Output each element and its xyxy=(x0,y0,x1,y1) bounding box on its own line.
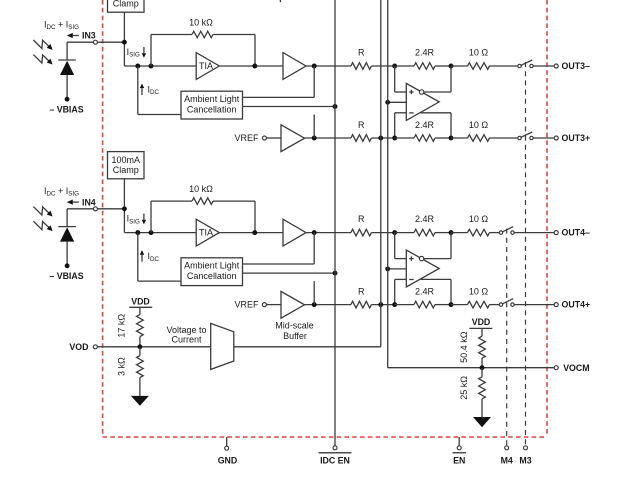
label GND xyxy=(218,455,238,465)
label OUT4- xyxy=(562,228,590,238)
svg-text:TIA: TIA xyxy=(199,228,213,238)
wire buffer out lower (IN4) xyxy=(305,304,352,306)
label 2.4R upper (IN4) xyxy=(415,214,435,224)
junction ALC lower tap (IN4) xyxy=(312,302,317,307)
terminal OUT3- xyxy=(554,64,558,68)
svg-text:10 kΩ: 10 kΩ xyxy=(189,184,213,194)
junction ALC lower tap (IN3) xyxy=(312,136,317,141)
wire TIA out (IN4) xyxy=(219,232,283,234)
junction R/2.4R lower (IN3) xyxy=(392,136,397,141)
ground (VOD divider) xyxy=(131,390,149,406)
label M3 xyxy=(519,455,531,465)
junction R/2.4R lower (IN4) xyxy=(392,302,397,307)
arrow into IN4 xyxy=(67,200,79,205)
resistor R upper (IN3) xyxy=(351,63,395,70)
wire ALC lower tap (IN4) xyxy=(313,281,315,305)
svg-text:Voltage to: Voltage to xyxy=(166,325,206,335)
wire IDC branch down (IN4) xyxy=(137,233,139,282)
wire FDA +in (IN4) xyxy=(395,233,407,259)
label OUT3- xyxy=(562,61,590,71)
clamp box (IN3) xyxy=(108,0,145,12)
switch OUT3- (IN3) xyxy=(518,60,533,68)
svg-text:2.4R: 2.4R xyxy=(415,47,435,57)
resistor R lower (IN4) xyxy=(351,301,395,308)
net VOCM bus xyxy=(388,0,482,368)
label 17 kOhm xyxy=(117,314,127,338)
svg-text:VDD: VDD xyxy=(131,297,150,307)
junction buffer out (IN3) xyxy=(312,64,317,69)
label TIA (IN3) xyxy=(199,61,213,71)
svg-text:VREF: VREF xyxy=(234,300,259,310)
svg-text:100mA: 100mA xyxy=(112,155,141,165)
voltage-to-current converter xyxy=(211,323,234,369)
wire TIA out (IN3) xyxy=(219,65,283,67)
op-amp VREF buffer (IN3) xyxy=(281,125,305,152)
wire FDA vocm (IN4) xyxy=(388,268,407,270)
svg-text:VDD: VDD xyxy=(472,317,491,327)
label 50.4 kOhm xyxy=(459,331,469,363)
wire clamp to input node (IN3) xyxy=(123,12,125,66)
resistor R upper (IN4) xyxy=(351,229,395,236)
resistor 10 Ohm lower (IN4) xyxy=(451,301,499,308)
junction feedback upper (IN3) xyxy=(449,64,454,69)
wire FDA -in (IN4) xyxy=(395,279,407,304)
label I_DC + I_SIG (IN3) xyxy=(44,19,79,31)
svg-text:Buffer: Buffer xyxy=(283,331,307,341)
wire clamp to input node (IN4) xyxy=(123,179,125,233)
label I_DC with arrow (IN4) xyxy=(140,250,160,263)
wire FDA out inverting (IN3) xyxy=(424,66,451,92)
junction feedback upper (IN4) xyxy=(449,230,454,235)
label R upper (IN4) xyxy=(358,214,365,224)
terminal GND xyxy=(225,437,229,450)
svg-text:50.4 kΩ: 50.4 kΩ xyxy=(459,331,469,363)
svg-text:Cancellation: Cancellation xyxy=(187,271,237,281)
label R lower (IN3) xyxy=(358,120,365,130)
net IDC EN bus xyxy=(334,0,336,446)
ground (VOCM divider) xyxy=(473,411,491,427)
junction VOCM divider xyxy=(480,365,485,370)
label 2.4R upper (IN3) xyxy=(415,47,435,57)
label TIA (IN4) xyxy=(199,228,213,238)
label 25 kOhm xyxy=(459,376,469,400)
label – VBIAS (IN3) xyxy=(49,105,83,115)
wire ALC middle to IDC EN bus (IN4) xyxy=(243,272,336,274)
label OUT4+ xyxy=(562,300,591,310)
label Mid-scale Buffer xyxy=(275,320,314,341)
svg-text:GND: GND xyxy=(218,455,238,465)
wire FDA out non-inverting (IN3) xyxy=(421,113,451,138)
wire to OUT3- xyxy=(533,65,554,67)
net VREF bus xyxy=(234,0,381,347)
label I_SIG with arrow (IN4) xyxy=(127,214,147,226)
resistor 10 kOhm feedback (IN3) xyxy=(151,31,255,66)
op-amp buffer (IN3) xyxy=(283,53,306,80)
svg-text:Clamp: Clamp xyxy=(113,165,139,175)
terminal M3 xyxy=(524,446,528,450)
label 3 kOhm xyxy=(117,357,127,376)
junction IDC branch (IN3) xyxy=(135,64,140,69)
svg-text:R: R xyxy=(358,214,365,224)
svg-text:R: R xyxy=(358,47,365,57)
svg-text:OUT3–: OUT3– xyxy=(562,61,590,71)
label 10 kOhm (IN3) xyxy=(189,18,213,28)
label R upper (IN3) xyxy=(358,47,365,57)
svg-text:M3: M3 xyxy=(519,455,531,465)
photodiode D3 light arrow 1 xyxy=(33,40,52,50)
junction feedback lower (IN4) xyxy=(449,302,454,307)
svg-text:OUT4–: OUT4– xyxy=(562,228,590,238)
label FDA &#8722; (IN3) xyxy=(409,112,413,114)
wire buffer out lower (IN3) xyxy=(305,137,352,139)
svg-text:IN4: IN4 xyxy=(82,197,96,207)
svg-text:R: R xyxy=(358,287,365,297)
terminal EN xyxy=(457,437,461,450)
svg-text:VOD: VOD xyxy=(69,342,88,352)
label FDA &#8722; (IN4) xyxy=(409,279,413,281)
label M4 xyxy=(501,455,513,465)
resistor 2.4R lower (IN3) xyxy=(395,135,451,142)
red dashed device boundary (bottom) xyxy=(103,436,547,438)
terminal VREF (IN4) xyxy=(262,303,266,307)
label 2.4R lower (IN4) xyxy=(415,287,435,297)
label EN (overline) xyxy=(453,453,467,466)
wire FDA vocm (IN3) xyxy=(388,101,407,103)
svg-text:10 Ω: 10 Ω xyxy=(469,287,489,297)
red dashed device boundary (left) xyxy=(102,0,104,437)
svg-text:Cancellation: Cancellation xyxy=(187,104,237,114)
wire IN4 into device xyxy=(97,208,124,210)
wire IN4 to photodiode xyxy=(67,209,93,227)
label 10 Ohm lower (IN3) xyxy=(469,120,489,130)
svg-text:OUT3+: OUT3+ xyxy=(562,133,591,143)
label VOD xyxy=(69,342,88,352)
svg-text:VOCM: VOCM xyxy=(563,363,589,373)
resistor 10 Ohm lower (IN3) xyxy=(451,135,518,142)
op-amp TIA (IN4) xyxy=(196,219,219,246)
wire to OUT3+ xyxy=(533,137,554,139)
label IN3 xyxy=(82,31,96,41)
junction feedback left (IN4) xyxy=(149,230,154,235)
label I_SIG with arrow (IN3) xyxy=(127,47,147,59)
wire ALC middle to IDC EN bus (IN3) xyxy=(243,106,336,108)
svg-text:Clamp: Clamp xyxy=(113,0,139,9)
terminal VOD xyxy=(93,345,97,349)
label IN4 xyxy=(82,197,96,207)
label R lower (IN4) xyxy=(358,287,365,297)
wire TIA input row (IN3) xyxy=(124,65,196,67)
svg-text:Mid-scale: Mid-scale xyxy=(275,320,314,330)
wire VREF to buffer (IN3) xyxy=(267,137,282,139)
node VBIAS dot (IN4) xyxy=(65,263,70,268)
resistor 3 kOhm xyxy=(137,347,144,390)
junction IDC branch (IN4) xyxy=(135,230,140,235)
label I_DC with arrow (IN3) xyxy=(140,84,160,97)
photodiode D3 light arrow 2 xyxy=(33,55,52,65)
svg-text:Ambient Light: Ambient Light xyxy=(184,94,240,104)
svg-text:EN: EN xyxy=(453,455,465,465)
op-amp VREF buffer (IN4) xyxy=(281,291,305,318)
wire ALC left (IN4) xyxy=(138,280,181,282)
switch OUT4- (IN4) xyxy=(499,227,514,235)
junction vocm bus (IN4) xyxy=(385,266,390,271)
junction R/2.4R upper (IN4) xyxy=(392,230,397,235)
terminal OUT4+ xyxy=(554,303,558,307)
label 10 Ohm lower (IN4) xyxy=(469,287,489,297)
label FDA + (IN4) xyxy=(409,256,413,260)
wire buffer out (IN4) xyxy=(306,232,351,234)
wire FDA -in (IN3) xyxy=(395,113,407,138)
power VDD (VOD divider) xyxy=(129,297,152,308)
wire to OUT4+ xyxy=(514,304,554,306)
junction ALC IDC EN bus (IN3) xyxy=(333,104,338,109)
junction feedback left (IN3) xyxy=(149,64,154,69)
resistor 2.4R upper (IN3) xyxy=(395,63,451,70)
op-amp buffer (IN4) xyxy=(283,219,306,246)
photodiode D4 light arrow 2 xyxy=(33,221,52,231)
red dashed device boundary (right) xyxy=(546,0,548,437)
Ambient Light Cancellation box (IN3) xyxy=(181,91,243,119)
wire to OUT4- xyxy=(514,232,554,234)
terminal IDC EN xyxy=(333,446,337,450)
svg-text:2.4R: 2.4R xyxy=(415,287,435,297)
label 2.4R lower (IN3) xyxy=(415,120,435,130)
label OUT3+ xyxy=(562,133,591,143)
wire IN3 to photodiode xyxy=(67,42,93,60)
wire ALC left (IN3) xyxy=(138,114,181,116)
svg-text:Ambient Light: Ambient Light xyxy=(184,260,240,270)
wire ALC top tap (IN3) xyxy=(243,66,315,97)
wire buffer out (IN3) xyxy=(306,65,351,67)
resistor 17 kOhm xyxy=(137,307,144,347)
label Voltage to Current xyxy=(166,325,206,345)
svg-text:25 kΩ: 25 kΩ xyxy=(459,376,469,400)
terminal VREF (IN3) xyxy=(262,136,266,140)
junction R/2.4R upper (IN3) xyxy=(392,64,397,69)
label 10 Ohm upper (IN4) xyxy=(469,214,489,224)
node VBIAS dot (IN3) xyxy=(65,97,70,102)
Ambient Light Cancellation box (IN4) xyxy=(181,258,243,286)
FDA inverting output bubble (IN3) xyxy=(419,90,423,94)
svg-text:– VBIAS: – VBIAS xyxy=(49,105,83,115)
resistor R lower (IN3) xyxy=(351,135,395,142)
junction feedback lower (IN3) xyxy=(449,136,454,141)
svg-text:VREF: VREF xyxy=(234,133,259,143)
switch OUT3+ (IN3) xyxy=(518,132,533,140)
op-amp FDA (IN3) xyxy=(406,83,439,120)
terminal OUT4- xyxy=(554,231,558,235)
wire ALC top tap (IN4) xyxy=(243,233,315,264)
wire FDA out inverting (IN4) xyxy=(424,233,451,259)
photodiode D3 xyxy=(58,60,76,99)
resistor 2.4R lower (IN4) xyxy=(395,301,451,308)
photodiode D4 light arrow 1 xyxy=(33,207,52,217)
svg-text:10 Ω: 10 Ω xyxy=(469,214,489,224)
svg-text:10 Ω: 10 Ω xyxy=(469,47,489,57)
label FDA + (IN3) xyxy=(409,90,413,94)
label VOCM xyxy=(563,363,589,373)
junction input node (IN3) xyxy=(122,40,127,45)
junction feedback right (IN3) xyxy=(252,64,257,69)
terminal M4 xyxy=(505,446,509,450)
label 10 kOhm (IN4) xyxy=(189,184,213,194)
FDA inverting output bubble (IN4) xyxy=(419,256,423,260)
svg-text:3 kΩ: 3 kΩ xyxy=(117,357,127,376)
svg-text:17 kΩ: 17 kΩ xyxy=(117,314,127,338)
svg-text:10 kΩ: 10 kΩ xyxy=(189,18,213,28)
label VREF (IN4) xyxy=(234,300,259,310)
wire IN3 into device xyxy=(97,41,124,43)
label VREF (IN3) xyxy=(234,133,259,143)
power VDD (VOCM divider) xyxy=(469,317,492,328)
op-amp TIA (IN3) xyxy=(196,53,219,80)
terminal IN3 xyxy=(93,40,97,44)
svg-text:2.4R: 2.4R xyxy=(415,120,435,130)
resistor 25 kOhm xyxy=(479,368,486,411)
control net M4 (dashed) xyxy=(506,229,508,446)
wire ALC lower tap (IN3) xyxy=(313,115,315,139)
wire FDA +in (IN3) xyxy=(395,66,407,92)
junction feedback right (IN4) xyxy=(252,230,257,235)
wire FDA out non-inverting (IN4) xyxy=(421,279,451,304)
wire cut-off stub (top edge) xyxy=(279,0,281,2)
resistor 10 Ohm upper (IN4) xyxy=(451,229,499,236)
junction vocm bus (IN3) xyxy=(385,100,390,105)
svg-text:TIA: TIA xyxy=(199,61,213,71)
control net M3 (dashed) xyxy=(525,62,527,446)
switch OUT4+ (IN4) xyxy=(499,299,514,307)
svg-text:10 Ω: 10 Ω xyxy=(469,120,489,130)
junction vref bus (IN4) xyxy=(378,302,383,307)
svg-text:M4: M4 xyxy=(501,455,513,465)
svg-text:2.4R: 2.4R xyxy=(415,214,435,224)
label 10 Ohm upper (IN3) xyxy=(469,47,489,57)
resistor 10 kOhm feedback (IN4) xyxy=(151,198,255,233)
junction ALC IDC EN bus (IN4) xyxy=(333,271,338,276)
arrow into IN3 xyxy=(67,33,79,38)
terminal VOCM xyxy=(554,366,558,370)
label IDC EN (overline) xyxy=(319,453,352,466)
junction vref bus (IN3) xyxy=(378,136,383,141)
resistor 2.4R upper (IN4) xyxy=(395,229,451,236)
clamp box (IN4) xyxy=(108,152,145,179)
svg-text:IDC EN: IDC EN xyxy=(320,455,350,465)
svg-text:– VBIAS: – VBIAS xyxy=(49,271,83,281)
junction input node (IN4) xyxy=(122,206,127,211)
wire VREF to buffer (IN4) xyxy=(267,304,282,306)
resistor 10 Ohm upper (IN3) xyxy=(451,63,518,70)
wire VOCM to terminal xyxy=(482,367,554,369)
label I_DC + I_SIG (IN4) xyxy=(44,186,79,198)
svg-text:IN3: IN3 xyxy=(82,31,96,41)
svg-text:R: R xyxy=(358,120,365,130)
junction VOD divider xyxy=(137,344,142,349)
label – VBIAS (IN4) xyxy=(49,271,83,281)
svg-text:OUT4+: OUT4+ xyxy=(562,300,591,310)
wire VOD to V2C xyxy=(98,346,211,348)
svg-text:Current: Current xyxy=(171,335,202,345)
terminal OUT3+ xyxy=(554,136,558,140)
wire IDC branch down (IN3) xyxy=(137,66,139,115)
terminal IN4 xyxy=(93,207,97,211)
wire TIA input row (IN4) xyxy=(124,232,196,234)
photodiode D4 xyxy=(58,227,76,266)
junction buffer out (IN4) xyxy=(312,230,317,235)
resistor 50.4 kOhm xyxy=(479,328,486,367)
op-amp FDA (IN4) xyxy=(406,250,439,287)
